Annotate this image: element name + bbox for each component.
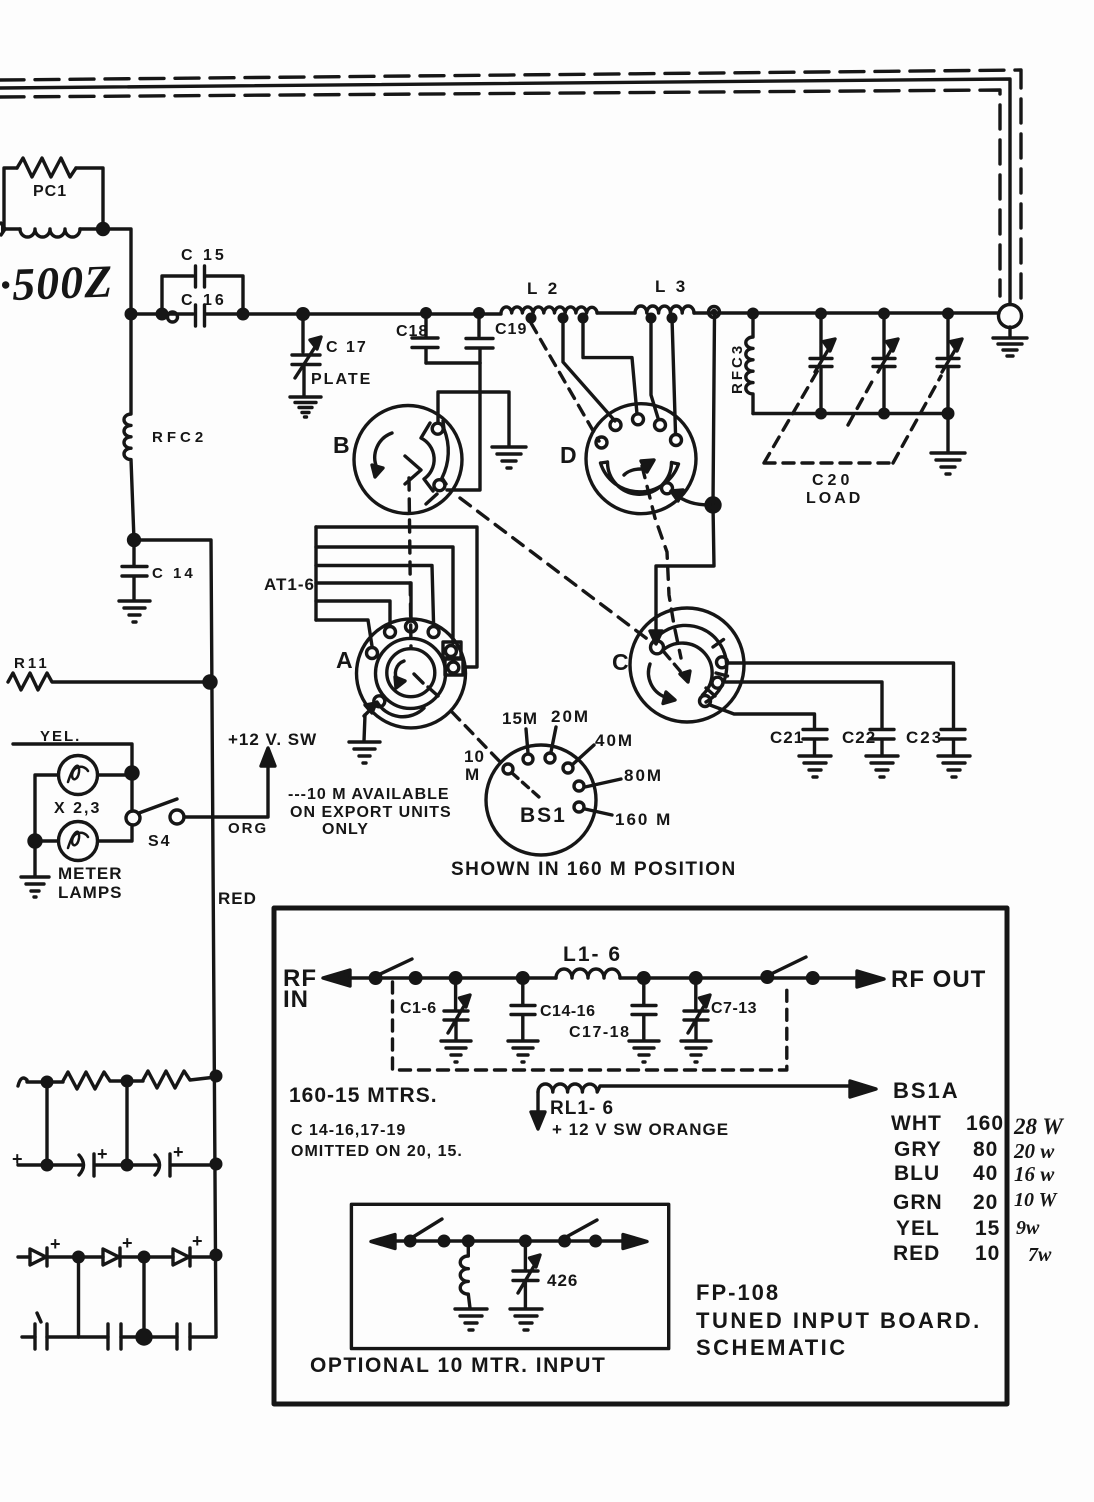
node D output — [706, 498, 720, 512]
switch S4 throw — [170, 810, 184, 824]
wire L3 tap1 to D — [651, 318, 658, 418]
svg-text:+12 V. SW: +12 V. SW — [228, 730, 317, 749]
svg-text:40M: 40M — [595, 731, 634, 750]
wire AT tap 3 — [316, 566, 434, 626]
svg-text:RFC2: RFC2 — [152, 429, 207, 446]
ground at C17-18 — [629, 1041, 659, 1062]
wire junction to red line — [134, 540, 216, 1337]
svg-text:+: + — [97, 1144, 108, 1164]
svg-text:RFC3: RFC3 — [729, 343, 746, 394]
ground at C1-6 — [441, 1041, 471, 1062]
node at PC1 output — [98, 224, 109, 235]
svg-text:RED: RED — [893, 1242, 940, 1265]
wire AT tap 2 — [316, 547, 453, 643]
svg-text:C 14-16,17-19: C 14-16,17-19 — [291, 1122, 406, 1139]
svg-text:SHOWN IN 160 M POSITION: SHOWN IN 160 M POSITION — [451, 859, 737, 880]
svg-text:TUNED INPUT BOARD.: TUNED INPUT BOARD. — [696, 1308, 982, 1333]
svg-text:X 2,3: X 2,3 — [54, 800, 101, 817]
ground at 426 — [510, 1309, 542, 1330]
ground at C23 — [938, 756, 970, 777]
wire C contact3 to C21 — [710, 705, 815, 728]
resistor bleeder 1 — [63, 1072, 143, 1089]
svg-text:R11: R11 — [14, 655, 50, 672]
capacitor C14 — [122, 540, 147, 600]
leader 80M — [585, 779, 621, 787]
svg-text:WHT: WHT — [891, 1112, 942, 1135]
RF choke RFC3 — [746, 313, 753, 414]
dashed link A to BS1 — [452, 712, 504, 766]
capacitor C22 — [870, 730, 894, 756]
svg-text:IN: IN — [283, 986, 309, 1013]
arrowhead into D moving contact — [671, 490, 683, 501]
svg-text:M: M — [465, 765, 479, 784]
svg-text:L1- 6: L1- 6 — [563, 943, 622, 966]
svg-text:10: 10 — [975, 1242, 1000, 1265]
wiper arrow to A ground contact — [364, 703, 376, 716]
svg-text:PC1: PC1 — [33, 183, 67, 200]
wire PC1 to plate line — [103, 229, 131, 313]
connector J1 RF output — [999, 305, 1022, 328]
capacitor C15 plates — [196, 266, 205, 287]
svg-text:ONLY: ONLY — [322, 821, 369, 838]
svg-text:15M: 15M — [502, 709, 538, 728]
switch A contacts — [367, 648, 378, 659]
wire lamp left branch — [35, 775, 58, 841]
svg-text:YEL: YEL — [896, 1217, 940, 1240]
electrolytic cap 2 — [155, 1154, 170, 1176]
capacitor C17-18 — [632, 978, 656, 1040]
FP-108 board box — [274, 908, 1007, 1404]
arrowhead RF IN — [323, 970, 350, 986]
switch D contacts — [596, 437, 607, 448]
BS1 contacts — [503, 764, 513, 774]
svg-text:S4: S4 — [148, 833, 172, 850]
svg-text:C 14: C 14 — [152, 565, 196, 582]
svg-text:METER: METER — [58, 864, 123, 883]
svg-text:20: 20 — [973, 1191, 998, 1214]
electrolytic cap 1 — [79, 1154, 94, 1176]
wire S4 to +12V arrow — [184, 766, 268, 817]
svg-text:20M: 20M — [551, 707, 590, 726]
wire D moving contact to node — [673, 493, 710, 505]
switch B contacts — [432, 423, 443, 434]
switch lever output — [771, 957, 806, 974]
wire AT tap 6 — [316, 620, 372, 646]
capacitor hv 3 — [177, 1324, 190, 1349]
ground at C22 — [866, 756, 898, 777]
svg-text:B: B — [333, 432, 350, 458]
dashed gang frame C20 — [764, 370, 941, 463]
capacitor C15 bracket — [162, 276, 243, 314]
arrowhead RL down — [536, 1092, 539, 1114]
svg-text:C7-13: C7-13 — [711, 1000, 757, 1017]
svg-text:15: 15 — [975, 1217, 1000, 1240]
capacitor C14-16 — [511, 978, 535, 1040]
svg-text:+: + — [192, 1231, 203, 1251]
switch A bottom arcs — [377, 687, 438, 717]
ground at lamps — [21, 841, 49, 897]
wire AT tap 5 — [316, 601, 390, 625]
lamp X2 — [59, 756, 98, 795]
wire switch B top contact to ground bracket — [438, 392, 509, 446]
switch D rotor segment — [601, 462, 679, 494]
leader 15M — [526, 729, 528, 753]
wire C19 down to switch B contact — [447, 363, 480, 490]
wire main tank bus — [131, 313, 999, 314]
BS1 dashed pointer — [512, 773, 539, 797]
capacitor C21 — [803, 730, 827, 756]
arrowhead opt left — [371, 1235, 395, 1249]
svg-text:L 3: L 3 — [655, 277, 688, 296]
arrowhead opt right — [623, 1235, 647, 1249]
svg-text:RL1- 6: RL1- 6 — [550, 1098, 614, 1119]
wire opt bus — [395, 1239, 624, 1242]
inductor in PC1 — [20, 229, 80, 237]
opt switch lever right — [568, 1220, 597, 1236]
node dot cap row — [137, 1330, 151, 1344]
switch C center dashed pointer — [664, 652, 686, 678]
RF choke RFC2 — [124, 314, 134, 540]
svg-text:10: 10 — [464, 747, 485, 766]
wire C contact1 to C23 — [729, 663, 954, 728]
wire YEL feed — [13, 744, 132, 811]
svg-text:80: 80 — [973, 1138, 998, 1161]
svg-text:FP-108: FP-108 — [696, 1280, 780, 1305]
svg-text:C1-6: C1-6 — [400, 1000, 437, 1017]
wire bleeder row stub — [18, 1078, 63, 1086]
wire A wiper to ground — [364, 715, 365, 741]
svg-text:28 W: 28 W — [1013, 1114, 1064, 1139]
svg-text:OMITTED ON 20, 15.: OMITTED ON 20, 15. — [291, 1143, 463, 1160]
ground at C7-13 — [681, 1041, 711, 1062]
switch A outer circle — [357, 619, 466, 728]
PC1 left terminal tick — [1, 223, 5, 235]
svg-text:160 M: 160 M — [615, 810, 672, 829]
svg-text:16 w: 16 w — [1014, 1162, 1055, 1186]
wire AT tap 4 — [316, 583, 411, 620]
switch C contacts — [651, 641, 664, 654]
lamp X3 — [59, 822, 98, 861]
capacitor hv 2 — [108, 1324, 121, 1349]
arrowhead BS1A — [850, 1081, 876, 1097]
node lamp top right — [126, 767, 138, 779]
capacitor C23 — [941, 730, 965, 756]
dashed board outline — [393, 982, 787, 1070]
svg-text:ORG: ORG — [228, 820, 268, 837]
svg-text:BS1: BS1 — [520, 804, 567, 827]
switch D rotation arrow — [624, 469, 641, 475]
variable capacitor 426 — [513, 1241, 538, 1308]
svg-text:+: + — [50, 1234, 61, 1254]
inductor L2 — [501, 307, 597, 313]
wire electrolytic row — [18, 1163, 216, 1166]
capacitor C18 — [412, 313, 438, 363]
svg-text:40: 40 — [973, 1162, 998, 1185]
svg-text:C19: C19 — [495, 321, 527, 338]
svg-text:YEL.: YEL. — [40, 728, 81, 745]
svg-text:RF OUT: RF OUT — [891, 966, 986, 993]
ground at switch A — [349, 742, 380, 763]
svg-text:OPTIONAL 10 MTR. INPUT: OPTIONAL 10 MTR. INPUT — [310, 1354, 606, 1377]
diode row wire — [18, 1255, 216, 1258]
switch A middle circle — [376, 638, 446, 708]
ground at C17 — [290, 397, 321, 417]
ground at opt inductor — [455, 1309, 487, 1330]
capacitor C16 plates — [196, 305, 205, 326]
opt switch lever left — [413, 1219, 442, 1237]
svg-text:20 w: 20 w — [1013, 1139, 1055, 1163]
switch B rotor segment — [421, 421, 448, 504]
wire L2 tap2 to D — [563, 318, 615, 421]
wire bleeder drops — [47, 1081, 127, 1165]
ground at J1 — [993, 327, 1027, 356]
svg-text:AT1-6: AT1-6 — [264, 575, 315, 594]
wire diode drops — [79, 1257, 145, 1337]
relay coil RL1-6 — [538, 1084, 855, 1092]
diode 3 — [173, 1248, 190, 1266]
shield dashed line top — [0, 70, 1021, 301]
capacitor C17 variable plate tune — [292, 314, 320, 396]
node dots diode row — [72, 1249, 223, 1264]
wire lamp right branch — [98, 775, 132, 841]
svg-text:80M: 80M — [624, 766, 663, 785]
resistor R11 — [8, 673, 210, 690]
dashed shaft B to A — [409, 478, 411, 648]
shield dashed line inner — [0, 90, 1000, 296]
svg-text:C 16: C 16 — [181, 292, 227, 309]
wire C20 bottom bus — [753, 412, 948, 415]
svg-text:C18: C18 — [396, 323, 428, 340]
node open circle at L3 end — [709, 307, 720, 318]
svg-text:D: D — [560, 442, 577, 468]
variable capacitor C20c — [937, 314, 959, 414]
node lamp bottom left — [29, 835, 41, 847]
svg-text:C 15: C 15 — [181, 247, 227, 264]
svg-text:+: + — [122, 1233, 133, 1253]
svg-text:9w: 9w — [1016, 1217, 1040, 1239]
diode 1 — [30, 1248, 47, 1266]
dashed shaft D to C — [642, 466, 681, 658]
node dots opt bus — [404, 1235, 602, 1248]
switch D wafer circle — [586, 404, 696, 514]
switch C wafer circle — [630, 608, 744, 722]
switch B rotation arrow — [375, 433, 392, 468]
svg-text:RED: RED — [218, 889, 257, 908]
svg-text:ON EXPORT UNITS: ON EXPORT UNITS — [290, 804, 452, 821]
wire L2 tap3 to D — [583, 318, 637, 414]
svg-text:10 W: 10 W — [1014, 1189, 1058, 1211]
ground at C20c — [931, 453, 965, 474]
node dots bleeder row — [41, 1070, 223, 1089]
variable capacitor C20a — [810, 314, 832, 414]
svg-text:C21: C21 — [770, 728, 804, 747]
parasitic choke PC1 box — [4, 168, 103, 229]
ground at C21 — [799, 756, 831, 777]
wire RF in bus — [350, 976, 860, 979]
switch A rotor pointer — [395, 661, 423, 683]
resistor bleeder 2 — [143, 1071, 216, 1088]
node dots C20 bottom bus — [815, 407, 955, 420]
leader 40M — [572, 745, 594, 765]
capacitor C19 — [466, 313, 493, 363]
svg-text:C20: C20 — [812, 472, 853, 489]
svg-text:BLU: BLU — [894, 1162, 940, 1185]
dashed gang line B to C — [460, 498, 650, 641]
tap dots L2 — [526, 313, 678, 324]
svg-text:+: + — [173, 1142, 184, 1162]
svg-text:+: + — [12, 1149, 23, 1169]
switch lever input — [378, 959, 412, 975]
dashed link L2 tap1 to D wafer — [531, 323, 599, 441]
wire L3 tap2 to D — [672, 318, 676, 433]
switch S4 lever — [139, 799, 177, 813]
node dots on bus — [125, 307, 955, 321]
svg-text:GRY: GRY — [894, 1138, 942, 1161]
wire solid HV/RF line top — [0, 79, 1010, 303]
svg-text:GRN: GRN — [893, 1191, 943, 1214]
ground at B bracket — [492, 447, 526, 468]
svg-text:C14-16: C14-16 — [540, 1003, 595, 1020]
switch S4 pole — [126, 811, 140, 825]
leader 20M — [551, 727, 556, 752]
svg-text:BS1A: BS1A — [893, 1078, 960, 1103]
diode 2 — [103, 1248, 120, 1266]
wire AT tap 1 — [316, 527, 477, 667]
svg-text:A: A — [336, 647, 353, 673]
switch D moving contact — [662, 483, 673, 494]
svg-text:160: 160 — [966, 1112, 1004, 1135]
switch BS1 circle — [486, 745, 596, 855]
cap row wire — [22, 1335, 216, 1338]
wire L3 end down to node — [713, 314, 715, 505]
switch A inner circle — [387, 649, 435, 697]
inductor opt — [460, 1241, 470, 1308]
svg-text:C22: C22 — [842, 728, 876, 747]
variable capacitor C20b — [873, 314, 895, 414]
switch A contact squares — [443, 642, 461, 658]
node at RFC2/C14 junction — [129, 535, 140, 546]
svg-text:LOAD: LOAD — [806, 490, 863, 507]
ground at C14 — [119, 601, 150, 622]
node dots RF bus — [369, 970, 820, 985]
ground at C14-16 — [508, 1041, 538, 1062]
variable capacitor C7-13 — [684, 978, 708, 1040]
arrowhead +12V SW — [261, 748, 275, 766]
svg-text:SCHEMATIC: SCHEMATIC — [696, 1335, 848, 1360]
svg-text:PLATE: PLATE — [311, 371, 372, 388]
svg-text:C23: C23 — [906, 728, 943, 747]
svg-text:C17-18: C17-18 — [569, 1024, 630, 1041]
svg-text:160-15 MTRS.: 160-15 MTRS. — [289, 1084, 438, 1107]
svg-text:L 2: L 2 — [527, 279, 560, 298]
switch C rotation arrow — [648, 664, 665, 697]
wire C18-C19 bottom link — [426, 361, 480, 364]
wire C contact2 to C22 — [726, 682, 883, 728]
arrowhead into C contact — [650, 631, 662, 644]
leader 160M — [585, 809, 612, 815]
node R11 to red line — [204, 676, 216, 688]
arrowhead RF OUT — [857, 971, 884, 987]
svg-text:7w: 7w — [1028, 1244, 1052, 1266]
node dots electrolytic row — [41, 1158, 223, 1172]
svg-text:C: C — [612, 649, 629, 675]
svg-text:426: 426 — [547, 1271, 578, 1290]
inductor L3 — [635, 306, 694, 313]
node open circle at C16 left — [168, 312, 178, 322]
svg-text:C 17: C 17 — [326, 339, 368, 356]
switch C rotor band — [652, 625, 728, 702]
svg-text:LAMPS: LAMPS — [58, 883, 123, 902]
svg-text:---10 M AVAILABLE: ---10 M AVAILABLE — [288, 786, 450, 803]
switch B wafer circle — [354, 406, 462, 514]
resistor in PC1 — [17, 158, 76, 177]
wire AT1-6 ladder left stub — [314, 527, 317, 620]
variable capacitor C1-6 — [444, 978, 468, 1040]
svg-text:·500Z: ·500Z — [0, 255, 114, 310]
inductor L1-6 — [556, 969, 620, 978]
wire C20c to ground — [946, 414, 949, 453]
optional 10m input box — [351, 1204, 668, 1348]
capacitor hv 1 — [35, 1313, 47, 1349]
wire node jog down to C contact — [656, 505, 714, 634]
svg-text:+ 12 V SW ORANGE: + 12 V SW ORANGE — [552, 1120, 729, 1139]
switch B center chevron — [405, 456, 421, 484]
